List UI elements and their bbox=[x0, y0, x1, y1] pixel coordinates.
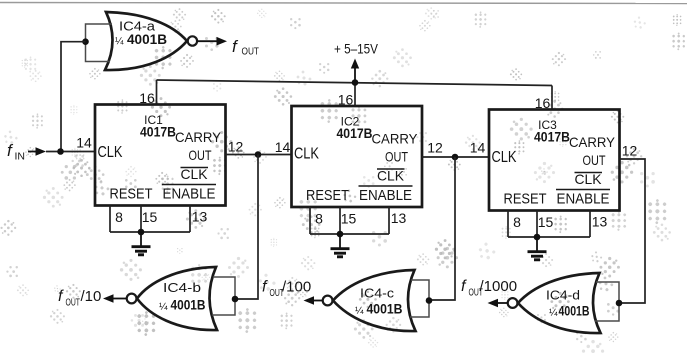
IC4-b output bubble bbox=[127, 294, 137, 304]
svg-text:4017B: 4017B bbox=[534, 130, 570, 145]
svg-text:CLK: CLK bbox=[181, 166, 209, 182]
svg-text:OUT: OUT bbox=[583, 152, 606, 168]
svg-text:15: 15 bbox=[142, 209, 158, 225]
IC1 counter 4017B box bbox=[95, 105, 226, 206]
svg-text:8: 8 bbox=[513, 214, 521, 230]
svg-text:CARRY: CARRY bbox=[569, 134, 616, 150]
svg-text:IN: IN bbox=[15, 151, 26, 163]
svg-text:¼: ¼ bbox=[115, 35, 124, 47]
junction: node B (decade 2 output) bbox=[452, 154, 459, 161]
svg-text:¼: ¼ bbox=[159, 301, 168, 313]
IC3 pin 15 wire bbox=[536, 211, 538, 238]
IC1 pin 15 wire bbox=[140, 206, 142, 233]
svg-text:CARRY: CARRY bbox=[372, 131, 419, 147]
svg-text:¼: ¼ bbox=[549, 307, 558, 319]
svg-text:8: 8 bbox=[315, 211, 323, 227]
svg-text:13: 13 bbox=[192, 209, 208, 225]
svg-text:4017B: 4017B bbox=[140, 125, 176, 140]
IC3 pin 8 wire bbox=[507, 211, 509, 238]
IC2 pin 8 wire bbox=[309, 207, 311, 234]
wire: IC3 carry out down to IC4-d input bbox=[619, 159, 645, 303]
svg-text:16: 16 bbox=[338, 92, 354, 108]
ground below IC1 bbox=[132, 232, 151, 255]
junction: IC4-c input tie bbox=[426, 297, 433, 304]
svg-text:CLK: CLK bbox=[294, 146, 320, 163]
svg-text:16: 16 bbox=[139, 90, 155, 106]
svg-text:14: 14 bbox=[275, 139, 291, 155]
svg-text:OUT: OUT bbox=[189, 147, 212, 163]
IC2 pin 13 wire bbox=[388, 207, 390, 234]
svg-text:4001B: 4001B bbox=[127, 31, 167, 47]
IC1 pin 13 wire bbox=[189, 206, 191, 233]
wire: IC4-b output bbox=[111, 298, 127, 300]
IC3 ground junction bbox=[534, 234, 541, 241]
junction: IC4-b input tie bbox=[232, 296, 239, 303]
IC4-a tied-input bracket wire bbox=[86, 24, 113, 62]
NOR gate IC4-a (1/4 4001B) bbox=[105, 12, 187, 70]
wire: f_IN to IC1 CLK pin 14 bbox=[46, 151, 95, 153]
svg-text:RESET: RESET bbox=[110, 187, 153, 203]
svg-text:4001B: 4001B bbox=[367, 301, 403, 317]
wire: f_IN riser to IC4-a inputs bbox=[61, 42, 86, 152]
svg-text:CARRY: CARRY bbox=[175, 129, 222, 145]
ground below IC3 bbox=[528, 237, 547, 260]
junction: IC4-a input tie bbox=[82, 38, 89, 45]
IC1 reset/enable bus wire bbox=[110, 231, 190, 233]
wire: node A down to IC4-b input bbox=[235, 155, 258, 300]
svg-text:RESET: RESET bbox=[306, 188, 349, 204]
IC1 ground junction bbox=[138, 229, 145, 236]
IC4-b tied-input bracket wire bbox=[212, 277, 235, 315]
f_IN input arrow bbox=[28, 151, 40, 153]
wire: IC4-c output bbox=[307, 300, 323, 302]
svg-text:CLK: CLK bbox=[377, 168, 405, 184]
svg-text:ENABLE: ENABLE bbox=[359, 188, 412, 204]
svg-text:12: 12 bbox=[427, 140, 443, 156]
svg-text:IC4-c: IC4-c bbox=[360, 286, 395, 301]
IC1 pin 8 wire bbox=[109, 206, 111, 233]
IC4-c output bubble bbox=[323, 296, 333, 306]
IC4-d output bubble bbox=[508, 298, 518, 308]
svg-text:12: 12 bbox=[228, 139, 244, 155]
svg-text:14: 14 bbox=[470, 140, 486, 156]
svg-text:ENABLE: ENABLE bbox=[163, 187, 216, 203]
svg-text:/10: /10 bbox=[81, 288, 102, 305]
svg-text:/1000: /1000 bbox=[480, 278, 518, 295]
svg-text:CLK: CLK bbox=[98, 144, 124, 161]
IC2 pin 15 wire bbox=[339, 207, 341, 234]
page top edge scan line bbox=[0, 3, 687, 4]
junction: IC4-d input tie bbox=[616, 300, 623, 307]
NOR gate IC4-d (1/4 4001B) bbox=[518, 273, 601, 333]
svg-text:15: 15 bbox=[538, 214, 554, 230]
svg-text:OUT: OUT bbox=[66, 298, 81, 309]
wire: IC4-d output bbox=[492, 302, 508, 304]
NOR gate IC4-b (1/4 4001B) bbox=[137, 267, 217, 330]
IC2 ground junction bbox=[337, 231, 344, 238]
wire: IC3 pin 16 riser bbox=[551, 86, 553, 110]
junction: f_IN node bbox=[57, 148, 64, 155]
IC4-d tied-input bracket wire bbox=[595, 282, 619, 321]
svg-text:RESET: RESET bbox=[504, 192, 547, 208]
IC3 counter 4017B box bbox=[489, 110, 620, 211]
svg-text:13: 13 bbox=[391, 210, 407, 226]
svg-text:15: 15 bbox=[341, 211, 357, 227]
wire: IC4-a output bbox=[197, 40, 222, 42]
IC3 reset/enable bus wire bbox=[508, 236, 590, 238]
wire: node B down to IC4-c input bbox=[429, 157, 455, 300]
IC4-c tied-input bracket wire bbox=[410, 280, 429, 317]
svg-text:14: 14 bbox=[76, 135, 92, 151]
svg-text:IC4-d: IC4-d bbox=[546, 288, 580, 303]
svg-text:¼: ¼ bbox=[355, 305, 364, 317]
svg-text:/100: /100 bbox=[282, 279, 311, 296]
junction: power node bbox=[352, 79, 359, 86]
wire: IC2 pin 16 riser bbox=[354, 83, 356, 107]
wire: IC2 carry out to IC3 clock bbox=[422, 156, 489, 158]
svg-text:4001B: 4001B bbox=[171, 297, 206, 313]
svg-text:13: 13 bbox=[592, 214, 608, 230]
wire: IC1 pin 16 riser bbox=[156, 80, 158, 105]
svg-text:12: 12 bbox=[622, 143, 638, 159]
svg-text:IC4-b: IC4-b bbox=[163, 280, 201, 295]
power supply arrow bbox=[354, 66, 356, 83]
junction: node A (decade 1 output) bbox=[255, 151, 262, 158]
svg-text:OUT: OUT bbox=[385, 149, 408, 165]
svg-text:ENABLE: ENABLE bbox=[557, 192, 610, 208]
svg-text:CLK: CLK bbox=[575, 171, 603, 187]
svg-text:8: 8 bbox=[115, 209, 123, 225]
power rail +5-15V (pin 16 bus) bbox=[157, 80, 553, 86]
svg-text:+ 5–15V: + 5–15V bbox=[334, 42, 378, 57]
svg-text:4017B: 4017B bbox=[337, 126, 373, 141]
IC2 reset/enable bus wire bbox=[310, 233, 389, 235]
svg-text:16: 16 bbox=[535, 95, 551, 111]
ground below IC2 bbox=[331, 234, 350, 257]
IC4-a output bubble bbox=[188, 36, 197, 45]
IC3 pin 13 wire bbox=[589, 211, 591, 238]
svg-text:4001B: 4001B bbox=[559, 303, 590, 319]
svg-text:OUT: OUT bbox=[242, 46, 260, 58]
wire: IC1 carry out to IC2 clock bbox=[226, 154, 292, 156]
svg-text:CLK: CLK bbox=[492, 149, 518, 166]
IC2 counter 4017B box bbox=[292, 106, 423, 207]
NOR gate IC4-c (1/4 4001B) bbox=[333, 270, 416, 331]
